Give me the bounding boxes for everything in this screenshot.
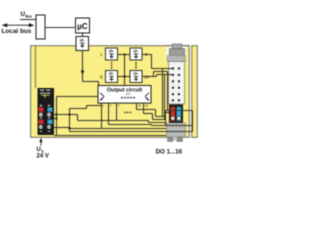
svg-text:15V: 15V	[126, 92, 131, 96]
svg-text:24 V: 24 V	[37, 154, 49, 160]
svg-text:16: 16	[145, 104, 149, 108]
module top border over bay	[166, 45, 189, 47]
power block polarity marks row 3	[40, 131, 42, 132]
wire descender b	[164, 75, 166, 120]
pin 16 drop wire	[143, 103, 145, 113]
microcontroller U1	[76, 18, 90, 33]
bus connector edge line	[35, 46, 37, 88]
wire connector loop right	[192, 111, 194, 132]
wire row1 left opto to bus	[118, 54, 131, 56]
screw terminal 2.4	[47, 125, 51, 129]
wire pin 2 run	[109, 125, 152, 126]
wire supply row 1	[54, 115, 149, 121]
output circuit dots	[121, 97, 135, 99]
wire bottom bus 2	[54, 135, 166, 137]
junction red terminal	[168, 111, 170, 113]
transistor Q1	[100, 93, 104, 101]
connector X1 blue terminal	[177, 107, 182, 121]
power terminal block body	[38, 88, 55, 135]
connector X1 pin field	[169, 62, 185, 105]
wire supply stub	[54, 118, 57, 120]
module housing	[31, 46, 190, 138]
wire pin 3 run	[149, 121, 166, 123]
wire supply staircase	[70, 106, 102, 109]
wire Us to output circuit	[57, 96, 99, 98]
wire ground bus upper	[70, 128, 167, 130]
connector X1 terminal block	[169, 105, 183, 124]
connector X1 collar band	[167, 56, 185, 62]
svg-text:Bus: Bus	[25, 14, 32, 18]
wire descender c	[167, 72, 169, 111]
wire connector loop top	[166, 110, 193, 112]
connector X1 screw right	[177, 116, 181, 120]
pin 1 drop wire	[101, 103, 103, 128]
wire pin 16 run	[144, 114, 166, 120]
connector X1 plug body	[167, 123, 186, 137]
optocoupler channel 9	[130, 48, 142, 60]
wire connector loop bottom	[152, 125, 193, 127]
pin continuation dots	[124, 112, 131, 114]
isolator optocoupler U2	[76, 37, 89, 51]
wire isolator down	[82, 51, 84, 82]
wire ground row	[54, 127, 70, 129]
junction row2 bus	[123, 75, 125, 77]
connector X1 bay	[166, 46, 186, 62]
junction supply b	[55, 117, 57, 119]
supply blue terminal 2.1	[48, 108, 53, 112]
wire bottom bus 1	[70, 131, 193, 133]
connector X1 top cap	[172, 44, 181, 49]
svg-text:Local bus: Local bus	[2, 28, 32, 35]
wire descender a	[162, 69, 164, 117]
supply blue terminal 2.3	[48, 120, 53, 124]
wire uC to isolator	[82, 33, 84, 37]
connector X1 foot left	[168, 137, 173, 142]
pin 3 drop wire	[116, 103, 118, 120]
adjacent module strip	[192, 46, 198, 138]
pin number labels	[102, 104, 148, 108]
svg-text:µC: µC	[77, 22, 88, 31]
power block internal jumper cross	[41, 93, 50, 99]
svg-text:15: 15	[138, 104, 142, 108]
local bus interface box	[36, 15, 45, 39]
pin 2 drop wire	[108, 103, 110, 124]
power block polarity marks row 1	[40, 105, 42, 107]
Us supply arrow	[40, 140, 42, 146]
wire middle channel branch	[154, 72, 168, 77]
connector X1 pins	[172, 67, 180, 101]
wire channel 9 to connector	[142, 55, 173, 69]
output circuit box	[98, 86, 151, 104]
power block label marks	[40, 90, 50, 94]
wire channel 16 to connector	[142, 75, 173, 77]
wire pin column stub right	[178, 104, 180, 107]
supply red terminal 1.1	[39, 108, 44, 112]
wire ground riser	[69, 109, 71, 132]
junction supply a	[55, 113, 57, 115]
wire to output circuit top	[83, 81, 99, 83]
connector X1 screw left	[171, 116, 175, 120]
wire connector loop left	[165, 111, 167, 126]
signal flow arrowhead	[81, 71, 85, 76]
junction ground	[68, 127, 70, 129]
continuation dots right column	[135, 62, 137, 69]
wire Us vertical riser	[56, 97, 58, 136]
pin 15 drop wire	[136, 103, 138, 109]
junction supply c	[68, 113, 70, 115]
svg-text:DO 1...16: DO 1...16	[156, 148, 183, 155]
supply red terminal 1.3	[39, 120, 44, 124]
wire red terminal feed	[166, 112, 172, 114]
local bus double arrow	[3, 24, 33, 27]
connector X1 foot right	[177, 137, 182, 142]
screw terminal 1.4	[39, 125, 43, 129]
continuation dots left column	[111, 62, 113, 69]
junction row1 bus	[123, 53, 125, 55]
screw terminal 2.2	[47, 113, 51, 117]
screw terminal 1.2	[39, 113, 43, 117]
connector X1 red terminal	[171, 107, 176, 121]
wire row2 left opto to bus	[118, 76, 131, 78]
wire Ubus	[20, 19, 36, 21]
center bus vertical wire	[124, 55, 126, 86]
optocoupler channel 8	[106, 71, 118, 83]
wire pin column stub left	[172, 104, 174, 107]
optocoupler channel 1	[106, 48, 118, 60]
wire pin 15 run	[137, 110, 166, 117]
svg-text:U: U	[37, 147, 41, 153]
transistor Q2	[145, 93, 149, 101]
optocoupler channel 16	[130, 71, 142, 83]
power block polarity marks row 2	[40, 117, 42, 118]
connector X1 cap base	[170, 49, 185, 56]
connector X1 foot center	[173, 137, 177, 141]
wire interface to uC	[45, 27, 76, 29]
